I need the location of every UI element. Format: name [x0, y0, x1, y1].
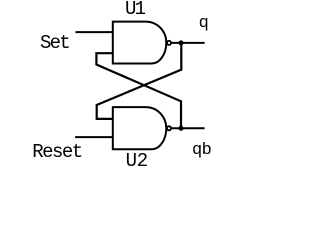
svg-text:U1: U1 — [125, 0, 146, 20]
svg-text:U2: U2 — [126, 150, 148, 172]
svg-text:qb: qb — [192, 141, 212, 160]
svg-text:Set: Set — [40, 32, 69, 54]
svg-text:q: q — [199, 14, 209, 33]
svg-text:Reset: Reset — [32, 141, 82, 163]
